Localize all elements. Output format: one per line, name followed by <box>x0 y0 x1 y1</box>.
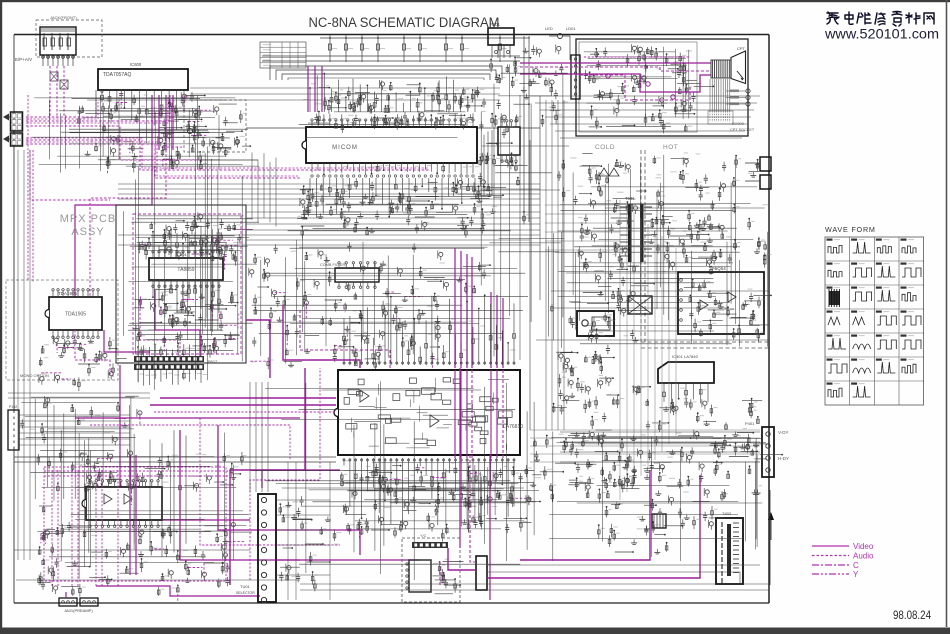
svg-text:Audio: Audio <box>853 552 874 561</box>
svg-text:TDA1905: TDA1905 <box>65 312 86 318</box>
svg-text:SV900: SV900 <box>732 121 745 126</box>
svg-text:. . . . .: . . . . . <box>40 21 50 26</box>
svg-text:Y: Y <box>853 570 859 579</box>
svg-text:MPX PCB: MPX PCB <box>60 213 117 225</box>
svg-text:ASSY: ASSY <box>71 226 104 238</box>
svg-text:LA7840: LA7840 <box>684 354 699 359</box>
svg-text:SELECTOR: SELECTOR <box>236 591 255 595</box>
svg-text:TU01: TU01 <box>240 584 251 589</box>
svg-text:T601: T601 <box>625 196 635 201</box>
svg-text:TDA7057AQ: TDA7057AQ <box>103 72 131 78</box>
svg-text:MICOM: MICOM <box>332 145 358 151</box>
svg-text:www.520101.com: www.520101.com <box>824 27 939 42</box>
svg-text:P612: P612 <box>208 359 218 364</box>
svg-text:COMB FILTER: COMB FILTER <box>320 263 346 267</box>
svg-text:NC-8NA SCHEMATIC DIAGRAM: NC-8NA SCHEMATIC DIAGRAM <box>309 15 500 30</box>
svg-text:Video: Video <box>853 542 874 551</box>
svg-text:IC301: IC301 <box>672 354 683 359</box>
svg-text:TA8859: TA8859 <box>177 267 194 273</box>
svg-text:P102: P102 <box>9 405 17 409</box>
svg-text:LA76810: LA76810 <box>503 424 523 430</box>
svg-text:98.08.24: 98.08.24 <box>893 608 931 622</box>
svg-text:C: C <box>853 561 859 570</box>
svg-text:LED: LED <box>545 26 553 31</box>
svg-text:LD01: LD01 <box>566 26 576 31</box>
svg-text:IC600: IC600 <box>130 62 142 67</box>
svg-text:JA01(PREAMP): JA01(PREAMP) <box>64 608 93 613</box>
svg-text:COLD: COLD <box>595 144 615 151</box>
svg-text:E/P+A/V: E/P+A/V <box>15 57 32 62</box>
svg-text:HOT: HOT <box>663 144 678 151</box>
svg-text:CPT SOCKET: CPT SOCKET <box>730 128 755 132</box>
svg-text:PA01: PA01 <box>490 22 501 27</box>
svg-text:WAVE FORM: WAVE FORM <box>825 225 876 234</box>
svg-text:CPT: CPT <box>737 46 746 51</box>
svg-text:JACK(FRONT): JACK(FRONT) <box>50 15 77 20</box>
